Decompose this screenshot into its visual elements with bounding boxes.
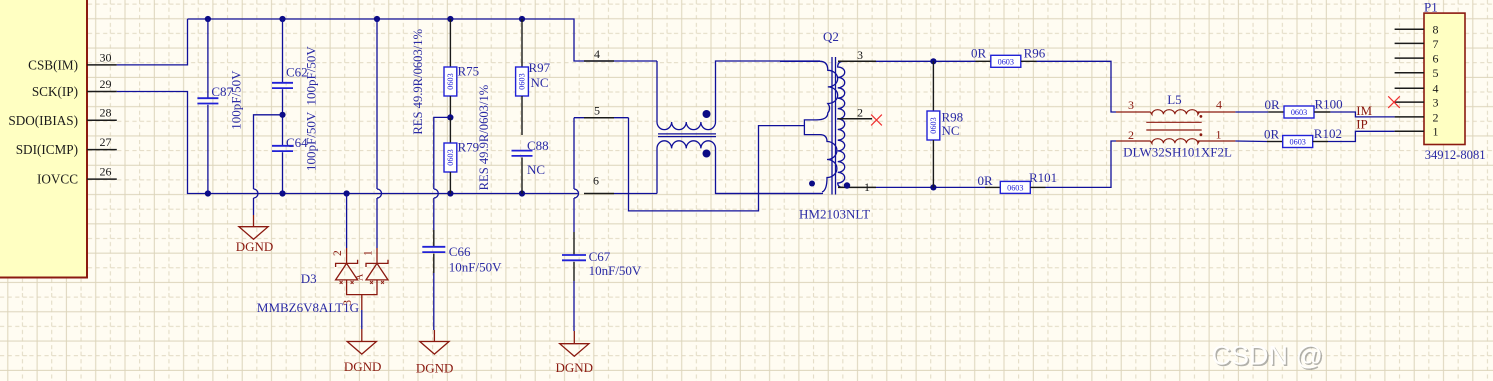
svg-text:DLW32SH101XF2L: DLW32SH101XF2L — [1123, 144, 1232, 159]
svg-text:0603: 0603 — [518, 73, 527, 89]
svg-text:4: 4 — [1433, 82, 1439, 96]
svg-text:2: 2 — [332, 250, 344, 256]
choke winding bottom — [657, 141, 822, 194]
resistor R97 — [521, 19, 523, 67]
svg-text:DGND: DGND — [416, 361, 454, 376]
capacitor C66 — [433, 230, 435, 247]
junction dots bottom rail — [205, 190, 211, 196]
Q2 left winding upper — [780, 61, 838, 192]
L5 pin 3 — [1116, 111, 1150, 113]
wire R96 to L5 pin3 — [1037, 61, 1117, 112]
D3 zener half, pin 1 — [376, 248, 378, 263]
Q2 polarity dot right — [844, 182, 850, 188]
choke winding top (Q2 input) — [657, 61, 820, 130]
watermark CSDN — [1212, 341, 1325, 373]
Q2 right winding — [838, 61, 845, 187]
svg-text:C66: C66 — [449, 244, 471, 259]
pin 26 IOVCC — [87, 178, 117, 180]
svg-text:NC: NC — [527, 162, 545, 177]
L5 pin 1 — [1198, 140, 1236, 142]
wire pin6 to choke — [614, 193, 657, 195]
wire Q2 pin1 to R101 — [876, 186, 985, 188]
svg-text:0R: 0R — [1264, 127, 1280, 142]
L5 polarity dot top — [1200, 115, 1203, 118]
pin 29 SCK(IP) — [87, 91, 117, 93]
svg-text:CSB(IM): CSB(IM) — [28, 58, 78, 73]
svg-text:NC: NC — [531, 75, 549, 90]
L5 pin 2 — [1116, 140, 1150, 142]
svg-text:0603: 0603 — [1290, 138, 1306, 147]
svg-text:0603: 0603 — [446, 73, 455, 89]
svg-text:0603: 0603 — [929, 117, 938, 133]
svg-text:4: 4 — [1216, 98, 1222, 112]
svg-text:R101: R101 — [1029, 170, 1057, 185]
svg-text:100pF/50V: 100pF/50V — [304, 111, 319, 171]
resistor R102 — [1235, 140, 1267, 143]
L5 pin 4 — [1198, 111, 1236, 113]
choke core lines — [658, 133, 716, 135]
junction dots top rail — [205, 16, 211, 22]
P1 pin 6 — [1395, 57, 1424, 59]
resistor R100 — [1235, 111, 1268, 113]
P1 pin 5 — [1395, 72, 1424, 74]
svg-text:0R: 0R — [978, 173, 994, 188]
P1 pin 7 — [1395, 42, 1424, 44]
svg-text:7: 7 — [1433, 37, 1439, 51]
svg-text:0603: 0603 — [1291, 108, 1307, 117]
svg-text:MMBZ6V8ALT1G: MMBZ6V8ALT1G — [257, 300, 359, 315]
Q2 pin 1 — [838, 186, 876, 188]
svg-text:3: 3 — [857, 48, 863, 62]
svg-text:10nF/50V: 10nF/50V — [589, 263, 642, 278]
capacitor C88 — [512, 150, 533, 152]
ground DGND4 (C67) — [573, 331, 575, 344]
svg-text:100pF/50V: 100pF/50V — [229, 70, 244, 130]
svg-text:0R: 0R — [971, 45, 987, 60]
pin 27 SDI(ICMP) — [87, 149, 117, 151]
ground DGND1 — [253, 215, 255, 227]
svg-text:27: 27 — [100, 135, 112, 149]
L5 core lines — [1146, 121, 1201, 123]
svg-text:SDI(ICMP): SDI(ICMP) — [16, 142, 78, 157]
svg-text:NC: NC — [942, 123, 960, 138]
svg-text:RES 49.9R/0603/1%: RES 49.9R/0603/1% — [477, 84, 491, 190]
svg-text:10nF/50V: 10nF/50V — [449, 260, 502, 275]
resistor R75 — [449, 19, 451, 67]
svg-text:0603: 0603 — [998, 58, 1014, 67]
svg-text:DGND: DGND — [556, 360, 594, 375]
svg-text:DGND: DGND — [236, 239, 274, 254]
svg-text:5: 5 — [594, 104, 600, 118]
wire Q2 pin3 to R96 — [876, 60, 976, 62]
svg-text:28: 28 — [100, 106, 112, 120]
pin 30 CSB(IM) — [87, 64, 117, 66]
svg-text:26: 26 — [100, 165, 112, 179]
choke polarity dot top — [703, 110, 711, 118]
svg-text:6: 6 — [1433, 52, 1439, 66]
L5 polarity dot bottom — [1200, 133, 1203, 136]
P1 pin 8 — [1395, 28, 1424, 30]
wire R75/R79 midpoint to C66 — [434, 117, 451, 189]
wire R101 to L5 pin2 — [1046, 141, 1117, 187]
resistor R98 (NC) — [930, 58, 936, 64]
capacitor C62 — [282, 19, 284, 83]
Q2 left winding bottom wire — [716, 193, 824, 195]
svg-text:RES 49.9R/0603/1%: RES 49.9R/0603/1% — [411, 28, 425, 134]
svg-text:2: 2 — [857, 106, 863, 120]
svg-text:DGND: DGND — [344, 359, 382, 374]
svg-text:A: A — [355, 273, 366, 281]
wire midpoint to DGND1 — [254, 115, 283, 189]
svg-text:3: 3 — [1128, 98, 1134, 112]
node C62/C64 midpoint — [279, 112, 285, 118]
Q2 pin 2 (NC) — [838, 118, 872, 120]
pin 4 stub — [584, 60, 614, 62]
resistor R101 — [985, 186, 1000, 188]
svg-text:IOVCC: IOVCC — [37, 172, 78, 187]
wire net pin30 to top rail — [117, 19, 188, 65]
capacitor C64 — [282, 115, 284, 147]
choke polarity dot bottom — [703, 150, 711, 158]
Q2 polarity dot left — [809, 181, 815, 187]
svg-text:R100: R100 — [1315, 97, 1343, 112]
IC port block U (CSB/SCK/SDO/SDI/IOVCC) — [0, 0, 87, 278]
P1 pin 4 — [1395, 87, 1424, 89]
svg-text:29: 29 — [100, 77, 112, 91]
connector P1 (34912-8081) — [1424, 13, 1465, 144]
svg-text:L5: L5 — [1167, 92, 1181, 107]
svg-text:IP: IP — [1356, 117, 1368, 132]
svg-text:0603: 0603 — [446, 149, 455, 165]
ground DGND2 (D3) — [361, 329, 363, 342]
D3 zener half, pin 2 — [346, 248, 348, 263]
transformer Q2 core — [831, 57, 833, 195]
svg-text:30: 30 — [100, 50, 112, 64]
svg-text:R96: R96 — [1024, 45, 1046, 60]
svg-text:0R: 0R — [1265, 97, 1281, 112]
svg-text:4: 4 — [594, 47, 600, 61]
ground DGND3 (C66) — [433, 330, 435, 342]
wire pin5 to Q2 left center tap — [629, 118, 805, 211]
svg-text:1: 1 — [1433, 125, 1439, 139]
L5 winding bottom — [1150, 139, 1199, 144]
node R75/R79 midpoint — [447, 114, 453, 120]
svg-text:D3: D3 — [301, 271, 317, 286]
capacitor C87 — [207, 19, 209, 99]
svg-text:2: 2 — [1128, 128, 1134, 142]
svg-text:C67: C67 — [589, 249, 611, 264]
svg-text:3: 3 — [1433, 96, 1439, 110]
pin 5 wire — [574, 117, 629, 119]
svg-text:HM2103NLT: HM2103NLT — [799, 207, 870, 222]
svg-text:6: 6 — [593, 174, 599, 188]
wire net pin29 to bottom rail — [117, 92, 578, 194]
svg-text:8: 8 — [1433, 23, 1439, 37]
pin 6 stub on bottom rail — [584, 193, 614, 195]
svg-text:0603: 0603 — [1007, 184, 1023, 193]
svg-text:SCK(IP): SCK(IP) — [32, 84, 78, 99]
svg-text:34912-8081: 34912-8081 — [1425, 148, 1486, 162]
Q2 pin 3 — [838, 60, 876, 62]
svg-text:R102: R102 — [1314, 126, 1342, 141]
L5 winding top — [1150, 110, 1199, 115]
svg-text:SDO(IBIAS): SDO(IBIAS) — [8, 113, 78, 128]
wire pin5 down to C67 (hop over rail) — [573, 118, 575, 189]
svg-text:R97: R97 — [529, 60, 551, 75]
svg-text:R75: R75 — [458, 63, 480, 78]
svg-text:1: 1 — [363, 250, 375, 256]
wire D3 pin1 from top rail — [376, 19, 378, 189]
svg-text:C88: C88 — [527, 138, 549, 153]
capacitor C67 — [573, 232, 575, 255]
P1 pin 1 — [1395, 130, 1424, 132]
resistor R79 — [449, 117, 451, 143]
svg-text:1: 1 — [864, 180, 870, 194]
svg-text:1: 1 — [1216, 128, 1222, 142]
resistor R96 — [976, 60, 991, 62]
svg-text:R79: R79 — [458, 140, 480, 155]
svg-text:100pF/50V: 100pF/50V — [304, 46, 319, 106]
svg-text:5: 5 — [1433, 66, 1439, 80]
P1 pin 2 — [1395, 116, 1424, 118]
wire R100 to P1 pin2, net IM — [1330, 112, 1394, 117]
wire D3 pin2 from bottom rail — [346, 194, 348, 249]
pin 28 SDO(IBIAS) — [87, 119, 117, 121]
svg-text:Q2: Q2 — [823, 29, 839, 44]
wire R102 to P1 pin1, net IP — [1328, 131, 1395, 141]
wire top rail — [188, 19, 658, 61]
svg-text:P1: P1 — [1424, 0, 1438, 15]
svg-text:2: 2 — [1433, 110, 1439, 124]
no-connect X on P1 pin 3 — [1388, 96, 1400, 108]
svg-text:CSDN @: CSDN @ — [1212, 341, 1323, 371]
P1 pin 3 — [1395, 101, 1424, 103]
D3 common anode U + pin 3 — [347, 280, 377, 295]
